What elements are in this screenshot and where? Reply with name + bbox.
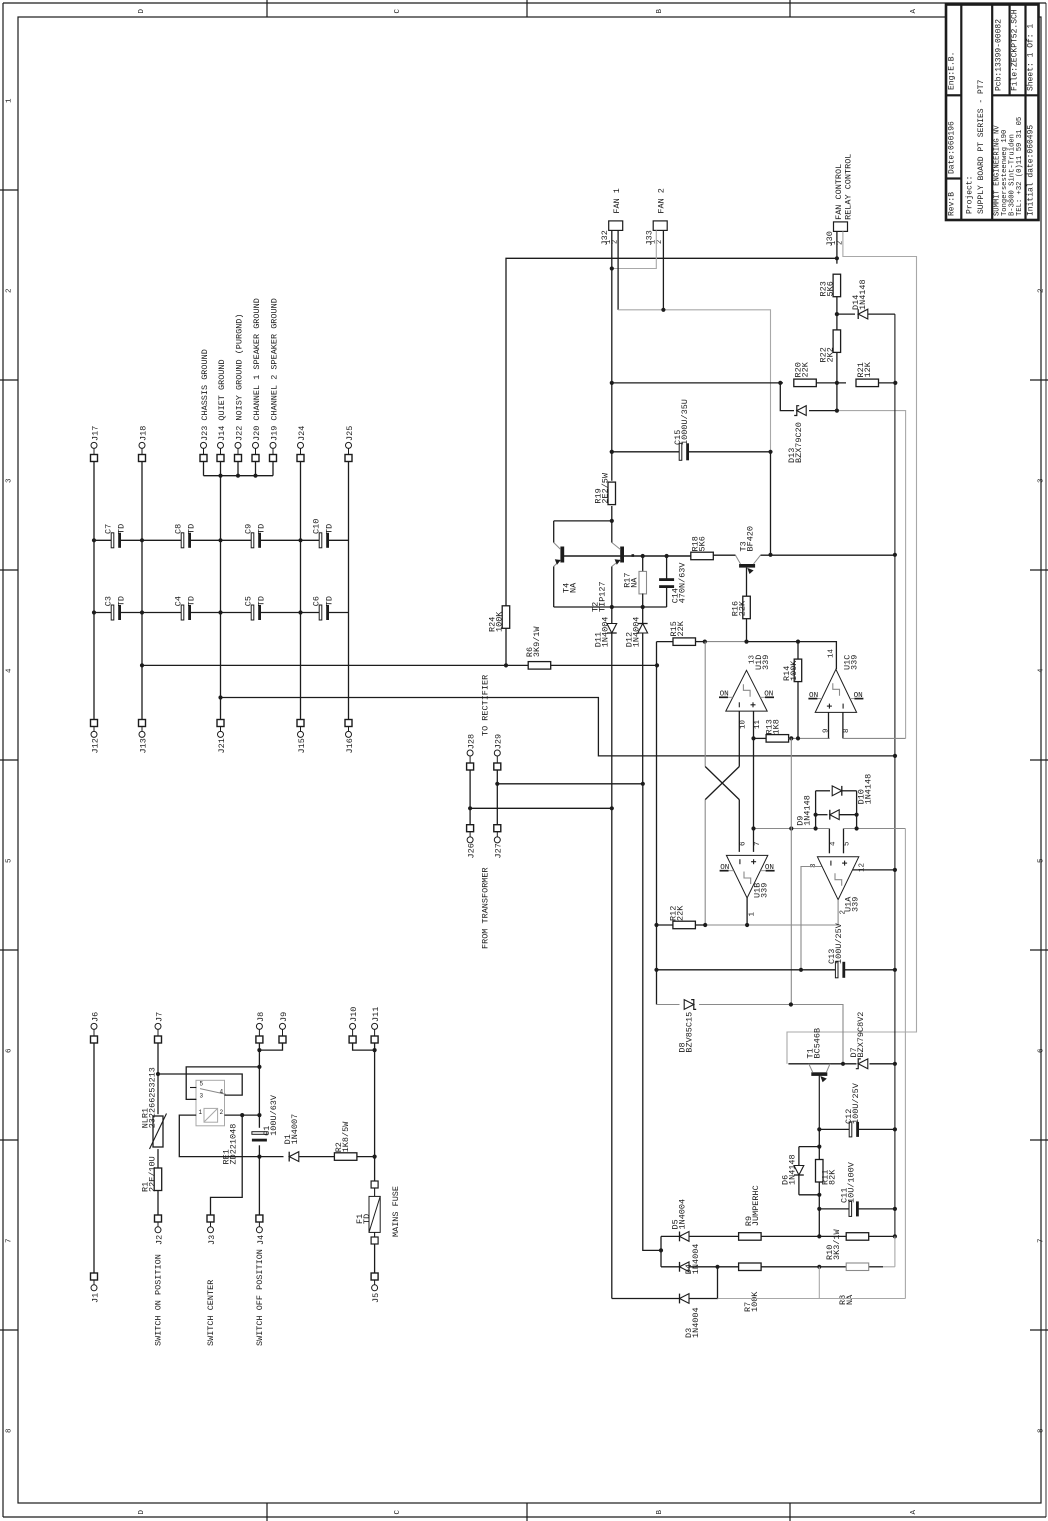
junction bbox=[610, 450, 614, 454]
wire X to R12 row bbox=[704, 800, 706, 925]
svg-text:SWITCH ON POSITION: SWITCH ON POSITION bbox=[153, 1254, 163, 1346]
svg-text:3K3/1W: 3K3/1W bbox=[832, 1228, 842, 1260]
svg-text:J13: J13 bbox=[138, 738, 148, 753]
wire J9 link bbox=[259, 1043, 282, 1050]
capacitor C1 bbox=[252, 1094, 279, 1141]
junction bbox=[745, 923, 749, 927]
svg-text:339: 339 bbox=[850, 897, 860, 912]
svg-text:3: 3 bbox=[5, 478, 13, 483]
junction bbox=[236, 474, 240, 478]
connector J6 bbox=[90, 1012, 100, 1043]
junction bbox=[641, 782, 645, 786]
connector J4 bbox=[256, 1215, 266, 1245]
transistor T3 BF420 bbox=[736, 526, 761, 597]
fuse F1 bbox=[355, 1181, 380, 1244]
wire gray bottom loop bbox=[718, 829, 906, 1299]
wire U1A pin4/5 stubs bbox=[829, 829, 843, 854]
svg-text:C6: C6 bbox=[311, 596, 321, 606]
relay RE1 bbox=[190, 1080, 238, 1164]
svg-text:100U/25V: 100U/25V bbox=[851, 1082, 861, 1124]
title block text rev/date/eng bbox=[947, 52, 956, 216]
diode D1 bbox=[259, 1114, 334, 1162]
title block text sheet/date bbox=[1026, 24, 1035, 216]
svg-text:22K: 22K bbox=[675, 905, 685, 921]
svg-text:5K6: 5K6 bbox=[825, 281, 835, 296]
svg-text:1N4004: 1N4004 bbox=[677, 1199, 687, 1230]
svg-text:File:ZECKPT52.SCH: File:ZECKPT52.SCH bbox=[1010, 9, 1019, 91]
resistor R23 bbox=[818, 258, 840, 296]
transistor T4 NA bbox=[554, 521, 579, 607]
svg-text:FAN CONTROL: FAN CONTROL bbox=[834, 164, 844, 220]
svg-text:100K: 100K bbox=[494, 611, 504, 632]
junction bbox=[835, 312, 839, 316]
junction bbox=[817, 1265, 821, 1269]
svg-text:J23 CHASSIS GROUND: J23 CHASSIS GROUND bbox=[200, 349, 210, 441]
svg-text:5: 5 bbox=[5, 858, 13, 863]
svg-text:1N4148: 1N4148 bbox=[863, 774, 873, 805]
junction bbox=[468, 806, 472, 810]
wire J32 pin1 column top bbox=[611, 230, 613, 268]
junction bbox=[796, 640, 800, 644]
transistor T1 BC546B bbox=[805, 1028, 830, 1130]
wire D13 row bbox=[780, 383, 905, 739]
svg-text:A: A bbox=[910, 1510, 918, 1515]
connector J19 CHANNEL 2 SPEAKER GROUND bbox=[269, 298, 279, 461]
svg-text:ON: ON bbox=[765, 864, 774, 872]
wire J8 column bbox=[258, 1043, 260, 1215]
svg-text:339: 339 bbox=[759, 883, 769, 898]
capacitor C8 bbox=[173, 524, 196, 548]
junction bbox=[665, 554, 669, 558]
svg-text:C4: C4 bbox=[173, 596, 183, 606]
junction bbox=[814, 826, 818, 830]
title block text project bbox=[965, 79, 986, 214]
connector J20 CHANNEL 1 SPEAKER GROUND bbox=[252, 298, 262, 461]
capacitor C11 bbox=[839, 1161, 858, 1216]
wire J11 column bbox=[374, 1043, 376, 1181]
svg-text:7: 7 bbox=[754, 841, 762, 846]
svg-text:9: 9 bbox=[822, 728, 830, 733]
junction bbox=[610, 266, 614, 270]
connector J18 bbox=[138, 426, 148, 462]
wire J30 pin1 bbox=[836, 231, 838, 258]
svg-text:B: B bbox=[656, 1510, 664, 1515]
junction bbox=[140, 610, 144, 614]
wire cap row 1 bbox=[94, 539, 349, 541]
svg-text:22K: 22K bbox=[676, 620, 686, 636]
capacitor C7 bbox=[103, 524, 126, 548]
svg-text:NA: NA bbox=[568, 582, 578, 593]
svg-text:6: 6 bbox=[5, 1048, 13, 1053]
wire pin9 corner bbox=[829, 737, 830, 739]
wire input gray row y828 bbox=[754, 828, 906, 830]
svg-text:ZD221048: ZD221048 bbox=[228, 1124, 238, 1165]
svg-text:1N4004: 1N4004 bbox=[691, 1244, 701, 1275]
svg-text:J15: J15 bbox=[297, 738, 307, 753]
capacitor C13 bbox=[827, 922, 845, 978]
wire long line B (rectifier -) bbox=[221, 698, 896, 756]
svg-text:4: 4 bbox=[1037, 668, 1045, 673]
svg-text:100U/25V: 100U/25V bbox=[834, 922, 844, 964]
svg-text:C9: C9 bbox=[243, 524, 253, 534]
svg-text:7: 7 bbox=[1037, 1238, 1045, 1243]
junction bbox=[789, 736, 793, 740]
svg-text:C: C bbox=[394, 9, 402, 14]
resistor R12 bbox=[657, 905, 748, 929]
svg-text:C7: C7 bbox=[103, 524, 113, 534]
junction bbox=[610, 519, 614, 523]
diode D8 zener bbox=[677, 1000, 696, 1053]
wire J6-J1 bbox=[93, 1043, 95, 1273]
svg-text:J8: J8 bbox=[256, 1012, 266, 1022]
svg-text:J22 NOISY GROUND (PURGND): J22 NOISY GROUND (PURGND) bbox=[234, 313, 244, 441]
junction bbox=[796, 736, 800, 740]
resistor R9 bbox=[739, 1185, 762, 1240]
label TO RECTIFIER bbox=[480, 675, 490, 736]
svg-text:2K2: 2K2 bbox=[825, 347, 835, 362]
junction bbox=[855, 826, 859, 830]
connector J26 bbox=[467, 825, 477, 859]
svg-text:J6: J6 bbox=[90, 1012, 100, 1022]
connector J8 bbox=[256, 1012, 266, 1043]
wire D11 column lower bbox=[611, 808, 613, 1298]
wire C15 right column to T3 bbox=[770, 452, 772, 555]
resistor R17 bbox=[622, 556, 646, 607]
wire D5/R9/R10 row bbox=[661, 1235, 895, 1237]
svg-text:2: 2 bbox=[5, 288, 13, 293]
junction bbox=[893, 553, 897, 557]
svg-text:4: 4 bbox=[829, 841, 837, 846]
capacitor C12 bbox=[844, 1082, 861, 1137]
junction bbox=[655, 663, 659, 667]
junction bbox=[768, 553, 772, 557]
svg-text:22E/10U: 22E/10U bbox=[147, 1156, 157, 1192]
junction bbox=[789, 1002, 793, 1006]
svg-text:NA: NA bbox=[629, 577, 639, 588]
wire R23-D14-R22 bbox=[836, 297, 838, 331]
svg-text:5: 5 bbox=[844, 841, 852, 846]
svg-text:J18: J18 bbox=[138, 426, 148, 441]
svg-text:ON: ON bbox=[720, 864, 729, 872]
resistor R15 bbox=[657, 620, 705, 645]
svg-text:14: 14 bbox=[827, 648, 835, 658]
diode D4 bbox=[680, 1244, 701, 1275]
connector J22 NOISY GROUND (PURGND) bbox=[234, 313, 244, 461]
svg-text:TD: TD bbox=[186, 524, 196, 534]
connector J16 bbox=[345, 720, 355, 754]
svg-text:2: 2 bbox=[1037, 288, 1045, 293]
capacitor C15 bbox=[612, 399, 771, 460]
junction bbox=[661, 308, 665, 312]
wire output row (R16/U1D/U1C/R14) bbox=[705, 642, 837, 670]
svg-text:J1: J1 bbox=[90, 1293, 100, 1303]
svg-text:ON: ON bbox=[764, 691, 773, 699]
svg-text:Date:060196: Date:060196 bbox=[947, 121, 956, 174]
svg-text:D: D bbox=[138, 9, 146, 14]
junction bbox=[373, 1155, 377, 1159]
wire R22 to D13 row bbox=[836, 353, 838, 411]
svg-text:C3: C3 bbox=[103, 596, 113, 606]
connector J11 bbox=[371, 1007, 381, 1043]
svg-text:22K: 22K bbox=[737, 600, 747, 616]
junction bbox=[140, 663, 144, 667]
junction bbox=[768, 450, 772, 454]
svg-text:J3: J3 bbox=[207, 1235, 217, 1245]
svg-text:J5: J5 bbox=[371, 1293, 381, 1303]
wire column J14-J21 bbox=[220, 476, 222, 720]
junction bbox=[893, 754, 897, 758]
junction bbox=[817, 1207, 821, 1211]
resistor R18 bbox=[690, 536, 713, 560]
svg-text:TD: TD bbox=[324, 596, 334, 606]
title block bbox=[946, 5, 1039, 221]
label D6 bbox=[780, 1154, 797, 1185]
svg-text:100U/63V: 100U/63V bbox=[269, 1094, 279, 1136]
capacitor C3 bbox=[103, 596, 126, 620]
svg-text:TD: TD bbox=[116, 596, 126, 606]
wire U1A pin3 to C13 row bbox=[801, 867, 822, 971]
wire R20/R21 row bbox=[612, 382, 896, 384]
capacitor C10 bbox=[311, 519, 334, 548]
junction bbox=[641, 554, 645, 558]
svg-text:1N4148: 1N4148 bbox=[787, 1154, 797, 1185]
varistor NLR1 bbox=[140, 1067, 166, 1149]
diode D6 / resistor R11 parallel bbox=[794, 1147, 823, 1195]
junction bbox=[893, 1062, 897, 1066]
svg-text:SUPPLY BOARD PT SERIES - PT7: SUPPLY BOARD PT SERIES - PT7 bbox=[977, 79, 986, 214]
junction bbox=[218, 474, 222, 478]
junction bbox=[893, 1234, 897, 1238]
svg-text:A: A bbox=[910, 9, 918, 14]
wire R15 jog column bbox=[656, 642, 658, 1005]
svg-text:3: 3 bbox=[200, 1092, 204, 1099]
svg-text:FAN 1: FAN 1 bbox=[612, 188, 622, 214]
svg-text:B: B bbox=[656, 9, 664, 14]
junction bbox=[240, 1113, 244, 1117]
junction bbox=[92, 538, 96, 542]
connector J23 CHASSIS GROUND bbox=[200, 349, 210, 461]
wire relay pin1 to D1 line bbox=[179, 1115, 259, 1157]
wire long line A (rectifier +) bbox=[142, 664, 657, 666]
junction bbox=[610, 381, 614, 385]
resistor R21 bbox=[856, 361, 879, 386]
diode D7 zener bbox=[849, 1012, 868, 1069]
wire pin8 row to net20a bbox=[843, 737, 906, 739]
svg-text:3K9/1W: 3K9/1W bbox=[532, 626, 542, 658]
svg-text:J11: J11 bbox=[371, 1007, 381, 1022]
label SWITCH ON POSITION bbox=[153, 1254, 163, 1346]
wire D4/D5 left bracket bbox=[660, 1236, 662, 1266]
diode D14 bbox=[837, 279, 895, 319]
wire U1B output bbox=[746, 898, 748, 925]
junction bbox=[817, 1127, 821, 1131]
junction bbox=[715, 1265, 719, 1269]
connector J2 bbox=[154, 1215, 164, 1245]
resistor R8 bbox=[838, 1263, 869, 1305]
junction bbox=[298, 610, 302, 614]
capacitor C14 bbox=[659, 556, 687, 607]
junction bbox=[218, 538, 222, 542]
svg-text:3: 3 bbox=[1037, 478, 1045, 483]
svg-text:J9: J9 bbox=[279, 1012, 289, 1022]
svg-text:5K6: 5K6 bbox=[697, 536, 707, 551]
junction bbox=[257, 1155, 261, 1159]
junction bbox=[799, 968, 803, 972]
connector J13 bbox=[138, 720, 148, 754]
svg-text:J28: J28 bbox=[467, 734, 477, 749]
svg-text:1N4148: 1N4148 bbox=[802, 795, 812, 826]
label SWITCH OFF POSITION bbox=[255, 1249, 265, 1346]
wire relay pin4 from J7 node bbox=[158, 1074, 242, 1095]
svg-text:Sheet: 1 Of: 1: Sheet: 1 Of: 1 bbox=[1026, 24, 1035, 91]
resistor R13 bbox=[754, 719, 830, 742]
connector J30 FAN CONTROL / RELAY CONTROL bbox=[825, 154, 853, 247]
svg-text:ON: ON bbox=[720, 691, 729, 699]
wire ground bus bbox=[204, 462, 274, 476]
wire T3 base/collector row bbox=[713, 554, 895, 556]
junction bbox=[257, 1065, 261, 1069]
connector J10 bbox=[349, 1007, 359, 1043]
svg-text:Initial date:060495: Initial date:060495 bbox=[1026, 125, 1035, 216]
svg-text:J26: J26 bbox=[467, 843, 477, 858]
wire pin11/pin7 column bbox=[753, 738, 755, 852]
svg-text:J12: J12 bbox=[90, 738, 100, 753]
junction bbox=[893, 868, 897, 872]
svg-text:1N4004: 1N4004 bbox=[691, 1307, 701, 1338]
wire D3 row bbox=[612, 1267, 718, 1299]
resistor R22 bbox=[818, 330, 840, 363]
wire J7 column bbox=[157, 1043, 159, 1215]
junction bbox=[257, 1048, 261, 1052]
connector J32 FAN 1 bbox=[600, 188, 623, 245]
svg-text:J7: J7 bbox=[154, 1012, 164, 1022]
junction bbox=[751, 736, 755, 740]
connector J1 bbox=[90, 1273, 100, 1303]
resistor R20 bbox=[793, 361, 816, 386]
wire T4/T2 collector bottom row bbox=[554, 606, 667, 608]
svg-text:FROM TRANSFORMER: FROM TRANSFORMER bbox=[480, 867, 490, 949]
wire cap row 2 bbox=[94, 612, 349, 614]
capacitor C4 bbox=[173, 596, 196, 620]
junction bbox=[751, 826, 755, 830]
wire J30 pin2 relay control line bbox=[787, 231, 917, 1063]
wire relay pin3 to J8 node bbox=[186, 1067, 259, 1100]
connector J29 bbox=[494, 734, 504, 770]
svg-text:J16: J16 bbox=[345, 738, 355, 753]
junction bbox=[92, 610, 96, 614]
wire column J25-J16 bbox=[348, 462, 350, 720]
diode D10 bbox=[816, 774, 874, 805]
svg-text:Rev:B: Rev:B bbox=[947, 192, 956, 216]
connector J27 bbox=[494, 825, 504, 859]
svg-text:TD: TD bbox=[116, 524, 126, 534]
resistor R1 bbox=[140, 1156, 161, 1192]
wire C11 row bbox=[819, 1208, 895, 1210]
wire net20 gray tail bbox=[894, 1236, 896, 1266]
svg-text:J27: J27 bbox=[494, 843, 504, 858]
svg-text:2: 2 bbox=[220, 1109, 224, 1116]
transistor T2 TIP127 bbox=[590, 521, 624, 612]
junction bbox=[654, 968, 658, 972]
svg-text:ON: ON bbox=[854, 692, 863, 700]
svg-text:232266253213: 232266253213 bbox=[147, 1067, 157, 1128]
junction bbox=[893, 381, 897, 385]
svg-text:5: 5 bbox=[1037, 858, 1045, 863]
connector J15 bbox=[297, 720, 307, 754]
svg-text:Pcb:13399-00082: Pcb:13399-00082 bbox=[994, 19, 1003, 91]
svg-text:J21: J21 bbox=[217, 738, 227, 753]
junction bbox=[298, 538, 302, 542]
wire D4/R7/R8 row bbox=[661, 1266, 895, 1268]
label MAINS FUSE bbox=[391, 1186, 401, 1237]
svg-text:J19 CHANNEL 2 SPEAKER GROUND: J19 CHANNEL 2 SPEAKER GROUND bbox=[269, 298, 279, 441]
svg-text:Project:: Project: bbox=[965, 176, 974, 214]
diode D9 bbox=[795, 795, 856, 826]
junction bbox=[855, 813, 859, 817]
svg-text:4: 4 bbox=[220, 1088, 224, 1095]
svg-text:BZX79C20: BZX79C20 bbox=[794, 422, 804, 463]
svg-text:BZX79C8V2: BZX79C8V2 bbox=[856, 1012, 866, 1058]
junction bbox=[817, 1145, 821, 1149]
svg-text:J17: J17 bbox=[90, 426, 100, 441]
svg-text:339: 339 bbox=[761, 655, 771, 670]
label R11 bbox=[820, 1169, 837, 1185]
svg-text:8: 8 bbox=[843, 728, 851, 733]
svg-text:11: 11 bbox=[754, 719, 762, 729]
svg-text:RELAY CONTROL: RELAY CONTROL bbox=[843, 154, 853, 220]
svg-text:1: 1 bbox=[5, 98, 13, 103]
svg-text:MAINS FUSE: MAINS FUSE bbox=[391, 1186, 401, 1237]
connector J9 bbox=[279, 1012, 289, 1043]
wire U1D pin10/11 stubs bbox=[739, 711, 753, 766]
svg-text:J4: J4 bbox=[256, 1235, 266, 1245]
junction bbox=[495, 782, 499, 786]
svg-text:8: 8 bbox=[1037, 1428, 1045, 1433]
svg-text:5: 5 bbox=[200, 1080, 204, 1087]
diode D11 bbox=[593, 607, 616, 808]
diode D13 zener bbox=[787, 406, 806, 463]
svg-text:TO RECTIFIER: TO RECTIFIER bbox=[480, 675, 490, 736]
junction bbox=[641, 605, 645, 609]
capacitor C9 bbox=[243, 524, 266, 548]
resistor R24 bbox=[487, 606, 509, 666]
junction bbox=[140, 538, 144, 542]
connector J7 bbox=[154, 1012, 164, 1043]
svg-text:1N4004: 1N4004 bbox=[631, 617, 641, 648]
svg-text:339: 339 bbox=[849, 655, 859, 670]
svg-text:C10: C10 bbox=[311, 519, 321, 534]
wire T4/T2 emitter top link bbox=[554, 520, 612, 522]
svg-text:2E2/5W: 2E2/5W bbox=[600, 472, 610, 504]
resistor R14 bbox=[782, 642, 802, 739]
svg-text:82K: 82K bbox=[827, 1169, 837, 1185]
connector J28 bbox=[467, 734, 477, 770]
wire C13 row bbox=[657, 969, 895, 971]
wire D9/D10 brackets bbox=[816, 791, 857, 829]
resistor R2 bbox=[334, 1121, 375, 1161]
svg-text:BC546B: BC546B bbox=[812, 1028, 822, 1059]
wire T1 emitter column bbox=[818, 1129, 820, 1236]
junction bbox=[893, 1127, 897, 1131]
svg-text:J24: J24 bbox=[297, 426, 307, 441]
svg-text:NA: NA bbox=[845, 1294, 855, 1305]
resistor R19 bbox=[593, 472, 615, 505]
wire U1A pin12 to net20 bbox=[853, 869, 895, 871]
svg-text:470N/63V: 470N/63V bbox=[677, 562, 687, 604]
wire J10 link bbox=[353, 1043, 375, 1050]
op-amp U1D 339 bbox=[719, 654, 774, 711]
svg-text:8: 8 bbox=[5, 1428, 13, 1433]
